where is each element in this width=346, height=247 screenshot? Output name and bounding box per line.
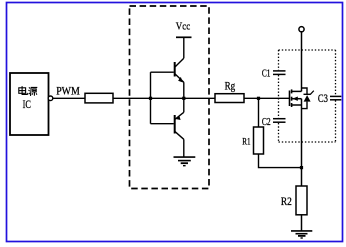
resistor R1 xyxy=(254,127,264,154)
series resistor (unlabeled) xyxy=(85,93,113,103)
svg-text:C3: C3 xyxy=(318,91,328,105)
drain terminal circle xyxy=(299,27,304,32)
label 源 (yuan) xyxy=(29,87,38,96)
wire Rg to gate xyxy=(244,97,290,99)
body arrow xyxy=(292,97,298,101)
wire vertical base bus xyxy=(150,72,152,124)
wire node to R2 xyxy=(301,168,303,186)
wire node to R1 xyxy=(258,98,260,127)
svg-text:R2: R2 xyxy=(281,194,292,208)
wire R1 to source node xyxy=(259,154,302,168)
resistor Rg xyxy=(215,94,244,103)
body stub xyxy=(292,98,302,100)
svg-text:R1: R1 xyxy=(242,137,250,147)
svg-text:Vcc: Vcc xyxy=(176,21,190,33)
drain stub xyxy=(292,90,302,92)
svg-text:PWM: PWM xyxy=(56,84,80,98)
dashed box: driver stage xyxy=(130,6,210,189)
wire PWM to resistor xyxy=(53,97,85,99)
body diode D1 xyxy=(302,88,314,109)
channel ticks xyxy=(291,89,293,93)
output terminal circle of IC xyxy=(48,96,53,101)
svg-text:C1: C1 xyxy=(262,68,271,80)
wire base join Q1 xyxy=(151,71,174,73)
source stub xyxy=(292,104,302,106)
wire base join Q2 xyxy=(151,123,174,125)
node: base bus to input xyxy=(149,97,152,100)
Vcc supply bar xyxy=(176,36,192,38)
resistor R2 xyxy=(296,186,307,215)
svg-text:IC: IC xyxy=(23,99,32,111)
gate bar xyxy=(289,91,291,107)
label 电 (dian) xyxy=(19,86,28,94)
ground (source side) xyxy=(291,231,312,238)
node: gate branch xyxy=(257,97,260,100)
node: emitters to output xyxy=(182,97,185,100)
dotted box: MOSFET with parasitics xyxy=(279,50,336,142)
transistor Q1 (NPN, upper) xyxy=(175,58,184,98)
wire R2 to ground xyxy=(301,215,303,231)
wire Vcc to Q1 collector xyxy=(183,37,185,58)
ground (driver stage) xyxy=(174,157,196,166)
wire drain terminal down xyxy=(301,32,303,92)
IC box (power supply IC) U1 xyxy=(10,73,49,135)
wire resistor to driver stage xyxy=(113,97,215,99)
transistor Q2 (PNP, lower) xyxy=(175,98,184,156)
wire source down xyxy=(301,99,303,168)
svg-text:Rg: Rg xyxy=(225,80,236,92)
MOSFET Q3 xyxy=(290,89,302,107)
node: source / R2 xyxy=(300,166,303,169)
svg-text:C2: C2 xyxy=(262,116,271,128)
